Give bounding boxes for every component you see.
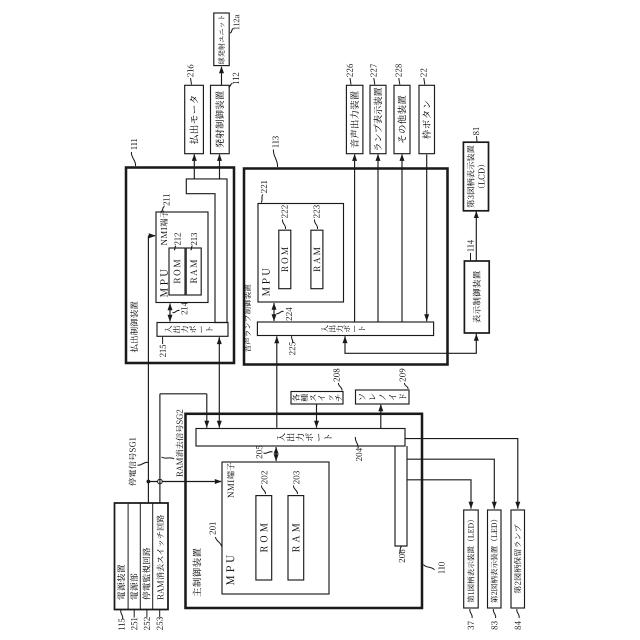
block RAM 223 box: [311, 230, 323, 289]
text MPU (221): [262, 287, 269, 296]
arrow into IO 224 from frame button: [424, 314, 429, 321]
label 37 leader squiggle: [470, 609, 472, 618]
label 222: [281, 214, 287, 218]
block 228 other devices box: [394, 85, 410, 153]
block 226 sound output device box: [346, 85, 363, 153]
arrow into other devices: [400, 154, 405, 161]
wire sound-lamp IO to display control L-path: [345, 334, 476, 354]
label 112: [233, 81, 239, 84]
label 202 leader squiggle: [261, 486, 265, 495]
label 225 leader squiggle: [291, 336, 292, 342]
label 84: [515, 626, 521, 630]
wire SG1 power-fail signal trunk: [147, 236, 149, 503]
label SG1 leader squiggle: [138, 462, 149, 465]
junction dot SG1 branch: [147, 480, 151, 484]
text RAM (223): [314, 266, 321, 272]
wire double arrow MPU 201 to IO port 204: [275, 447, 277, 461]
arrow into IO 214 side: [168, 315, 173, 322]
text IO port 204 nyushutsuryoku-port: [277, 433, 285, 441]
arrow into main IO (payout link): [217, 421, 222, 428]
label 224 leader squiggle: [277, 311, 284, 313]
bus channel 206 from IO port 204: [395, 446, 407, 546]
label 113: [272, 144, 278, 147]
block IO port 214 box: [157, 323, 228, 337]
wire SG2 RAM-erase signal trunk: [159, 394, 161, 503]
wire stub to launch control 112: [219, 155, 221, 179]
block 253 RAM erase switch circuit text: [157, 594, 163, 599]
label 209 leader squiggle: [404, 383, 408, 389]
block 227 lamp display device box: [370, 85, 386, 153]
arrow into MPU 201 side: [274, 454, 279, 461]
text RAM (213): [190, 278, 197, 284]
label 203: [293, 480, 299, 484]
text MPU (211): [160, 288, 167, 297]
arrow into 2nd pattern hold lamp: [515, 502, 520, 509]
label SG2 text RAM-keshi-shingou-SG2: [177, 471, 183, 476]
text solenoid: [359, 394, 365, 400]
arrow into launch control: [217, 154, 222, 161]
label 213: [191, 241, 197, 245]
arrow into MPU 211 side: [168, 303, 173, 310]
text NMI terminal (201): [228, 492, 234, 498]
block 112 launch control unit box: [211, 85, 230, 153]
block MPU 221 box: [258, 204, 344, 303]
label 214: [181, 311, 187, 315]
block 252 power failure monitor circuit text: [142, 592, 150, 600]
label 216 leader dash: [191, 78, 192, 85]
label 212: [174, 241, 180, 245]
wire to sound output device: [354, 155, 356, 323]
arrow into payout motor: [192, 154, 197, 161]
text launch control unit hassha-seigyo-souchi: [215, 139, 224, 148]
wire SG1 drop into MPU 211 NMI: [148, 235, 155, 237]
label 212 leader squiggle: [174, 246, 176, 250]
label 253: [157, 626, 163, 630]
label 112a: [234, 27, 240, 30]
text NMI terminal (211): [161, 239, 167, 245]
text IO port 224: [321, 325, 328, 332]
block 114 display control unit box: [464, 261, 489, 333]
label 228 leader dash: [399, 78, 400, 85]
label 222 leader squiggle: [282, 220, 285, 230]
block 115 row separator line 3: [152, 503, 154, 610]
label 252: [144, 626, 150, 630]
label 225: [289, 351, 295, 355]
wire launch control to ball launch unit: [221, 67, 223, 86]
label 211: [163, 202, 169, 206]
block 81 third pattern display (LCD) box: [463, 142, 488, 211]
label 221: [261, 189, 267, 193]
label 214 leader squiggle: [173, 310, 180, 312]
arrow SG1 into MPU 201: [215, 479, 222, 484]
block MPU 211 box: [156, 212, 208, 303]
label 224: [286, 317, 292, 321]
text ROM (222): [282, 266, 289, 272]
arrow into lamp display device: [376, 154, 381, 161]
wire main to payout command: [218, 337, 220, 428]
text third pattern display line1: [467, 200, 475, 208]
arrow into MPU 221 side: [272, 303, 277, 310]
crossover hop SG1-branch over SG2: [158, 479, 163, 484]
wire to lamp display device: [377, 155, 379, 323]
label 208 leader squiggle: [338, 383, 342, 391]
text IO port 214: [165, 326, 172, 333]
text various switches kakushu-switch: [292, 394, 300, 402]
label 22 leader dash: [424, 78, 425, 85]
text display control unit hyouji-seigyo-souchi: [473, 315, 481, 323]
text second pattern hold lamp: [514, 586, 521, 593]
label 253 leader dash: [159, 610, 161, 618]
block 115 row separator line 2: [139, 503, 141, 610]
block ROM 212 box: [169, 248, 185, 295]
wire SG2 into main IO port: [206, 394, 208, 428]
arrow SG2 into main IO port: [204, 421, 209, 428]
text other devices sonota-souchi: [398, 136, 406, 143]
wire double arrow IO 224 to MPU 221: [273, 303, 275, 321]
arrow into sound output device: [352, 154, 357, 161]
arrow into sound-lamp IO: [274, 336, 279, 343]
block IO port 224 box: [257, 322, 433, 336]
label 226: [347, 73, 353, 77]
arrow into display control unit: [474, 334, 479, 341]
block 83 second pattern display (LED) box: [488, 510, 502, 608]
block 84 second pattern hold lamp box: [511, 510, 525, 608]
text first pattern display LED: [467, 596, 474, 603]
arrow into 1st pattern display: [469, 502, 474, 509]
label 204: [356, 457, 362, 461]
wire stub to payout motor 216: [193, 155, 195, 179]
block 113 sound lamp control unit outer box: [244, 169, 448, 365]
label 202: [261, 480, 267, 484]
label SG1 text teiden-shingou-SG1: [129, 478, 137, 486]
label 201: [209, 531, 215, 535]
label 205 leader squiggle: [264, 452, 273, 454]
arrow into solenoid: [378, 404, 383, 411]
label 83: [491, 626, 497, 630]
label 211 leader squiggle: [161, 207, 165, 212]
text frame button waku-button: [422, 130, 431, 139]
wire main IO to solenoid: [380, 405, 382, 429]
wire SG1 branch down to MPU 201 NMI: [148, 481, 221, 483]
arrow into sound-lamp IO (display link): [343, 336, 348, 343]
label 114 leader dash: [470, 253, 472, 261]
text lamp display device: [374, 144, 381, 150]
label 223 leader squiggle: [314, 220, 317, 230]
block 208 various switches box: [291, 392, 343, 405]
text ball launch unit tama-hassha-unit: [218, 58, 225, 65]
label 37: [468, 626, 474, 630]
label 221 leader squiggle: [261, 195, 263, 203]
block 111 payout control unit outer box: [126, 168, 234, 364]
text MPU (201): [226, 576, 234, 585]
text third pattern display line2 LCD: [477, 186, 485, 188]
label 227: [370, 73, 376, 77]
text ROM (212): [174, 278, 181, 284]
wire various switches to main IO: [316, 404, 318, 428]
block RAM 213 box: [186, 248, 201, 295]
arrow into main IO (switches): [314, 421, 319, 428]
bus channel payout L-shape: [186, 179, 227, 323]
label 81 leader dash: [476, 136, 479, 141]
wire display control to LCD: [475, 212, 477, 261]
wire main to sound-lamp command: [276, 336, 278, 427]
block 209 solenoid box: [356, 390, 410, 404]
block 111 title text haraidashi-seigyo-souchi: [130, 344, 138, 352]
arrow SG1 into MPU 211: [149, 233, 156, 238]
wire from bus to 2nd pattern display: [407, 459, 494, 509]
wire SG2 vertical segment: [160, 393, 207, 395]
text payout motor: [189, 135, 198, 144]
text ROM (202): [260, 546, 267, 552]
block 37 first pattern display (LED) box: [464, 510, 479, 608]
block RAM 203 box: [288, 496, 304, 580]
label 215 leader dash: [162, 337, 164, 344]
label 110: [438, 570, 444, 573]
label 216: [187, 73, 193, 77]
label 112 leader squiggle: [229, 83, 233, 87]
label 112a leader squiggle: [230, 29, 234, 34]
label 22: [420, 73, 426, 77]
arrow into IO 224 side: [272, 314, 277, 321]
label 228: [395, 73, 401, 77]
label 111: [131, 146, 137, 149]
block IO port 204 box: [196, 429, 405, 447]
arrow into ball launch unit: [219, 66, 224, 73]
label 115 leader squiggle: [121, 610, 123, 619]
block 110 title text shu-seigyo-souchi: [193, 588, 201, 597]
label 115: [119, 627, 125, 630]
label SG2 leader squiggle: [162, 457, 175, 459]
label 227 leader dash: [374, 78, 375, 85]
block 115 power supply unit (dengen-souchi) outer box: [115, 503, 169, 610]
block MPU 201 box: [222, 462, 329, 594]
arrow into IO 204 side: [274, 447, 279, 454]
block 113 title text onsei-lamp-seigyo-souchi: [244, 345, 251, 352]
label 113 leader squiggle: [273, 150, 277, 168]
block ROM 202 box: [256, 496, 272, 580]
label 204 leader squiggle: [355, 437, 358, 449]
label 215: [160, 353, 166, 357]
label 205: [256, 455, 262, 459]
wire from IO204 to 2nd pattern hold lamp: [405, 439, 518, 509]
block 110 main control unit outer box: [186, 414, 423, 608]
arrow into 2nd pattern display: [492, 502, 497, 509]
label 201 leader squiggle: [216, 537, 222, 547]
arrow into payout IO (payout link): [217, 337, 222, 344]
label 209: [399, 378, 405, 382]
label 206: [399, 559, 405, 563]
block 22 frame button box: [419, 85, 435, 153]
label 251: [131, 626, 137, 630]
block ROM 222 box: [279, 230, 291, 289]
text second pattern display LED: [491, 596, 498, 603]
label 203 leader squiggle: [293, 486, 297, 495]
label 84 leader squiggle: [517, 609, 519, 618]
block 115 row separator line 1: [127, 503, 129, 610]
wire double arrow IO 214 to MPU 211: [169, 304, 171, 322]
wire from frame button to IO 224: [426, 155, 428, 322]
label 110 leader squiggle: [424, 565, 435, 571]
label 223: [313, 214, 319, 218]
block 251 power section text: [130, 592, 138, 600]
label 206 leader squiggle: [399, 547, 402, 554]
label 213 leader squiggle: [191, 246, 193, 250]
label 81: [473, 131, 479, 135]
wire to other devices: [401, 155, 403, 323]
label 251 leader dash: [133, 610, 135, 618]
block 112a ball launch unit box: [214, 13, 229, 66]
label 83 leader squiggle: [493, 609, 495, 618]
label 226 leader dash: [350, 78, 351, 85]
arrow into third pattern display LCD: [474, 211, 479, 218]
label 252 leader dash: [146, 610, 148, 618]
block 115 title text: [117, 592, 125, 600]
text RAM (203): [292, 546, 299, 552]
text sound output device: [350, 139, 359, 147]
wire from bus to 1st pattern display: [407, 480, 471, 509]
label 114: [467, 248, 473, 251]
label 208: [333, 378, 339, 382]
block 216 payout motor box: [185, 85, 204, 153]
label 111 leader squiggle: [131, 152, 135, 166]
